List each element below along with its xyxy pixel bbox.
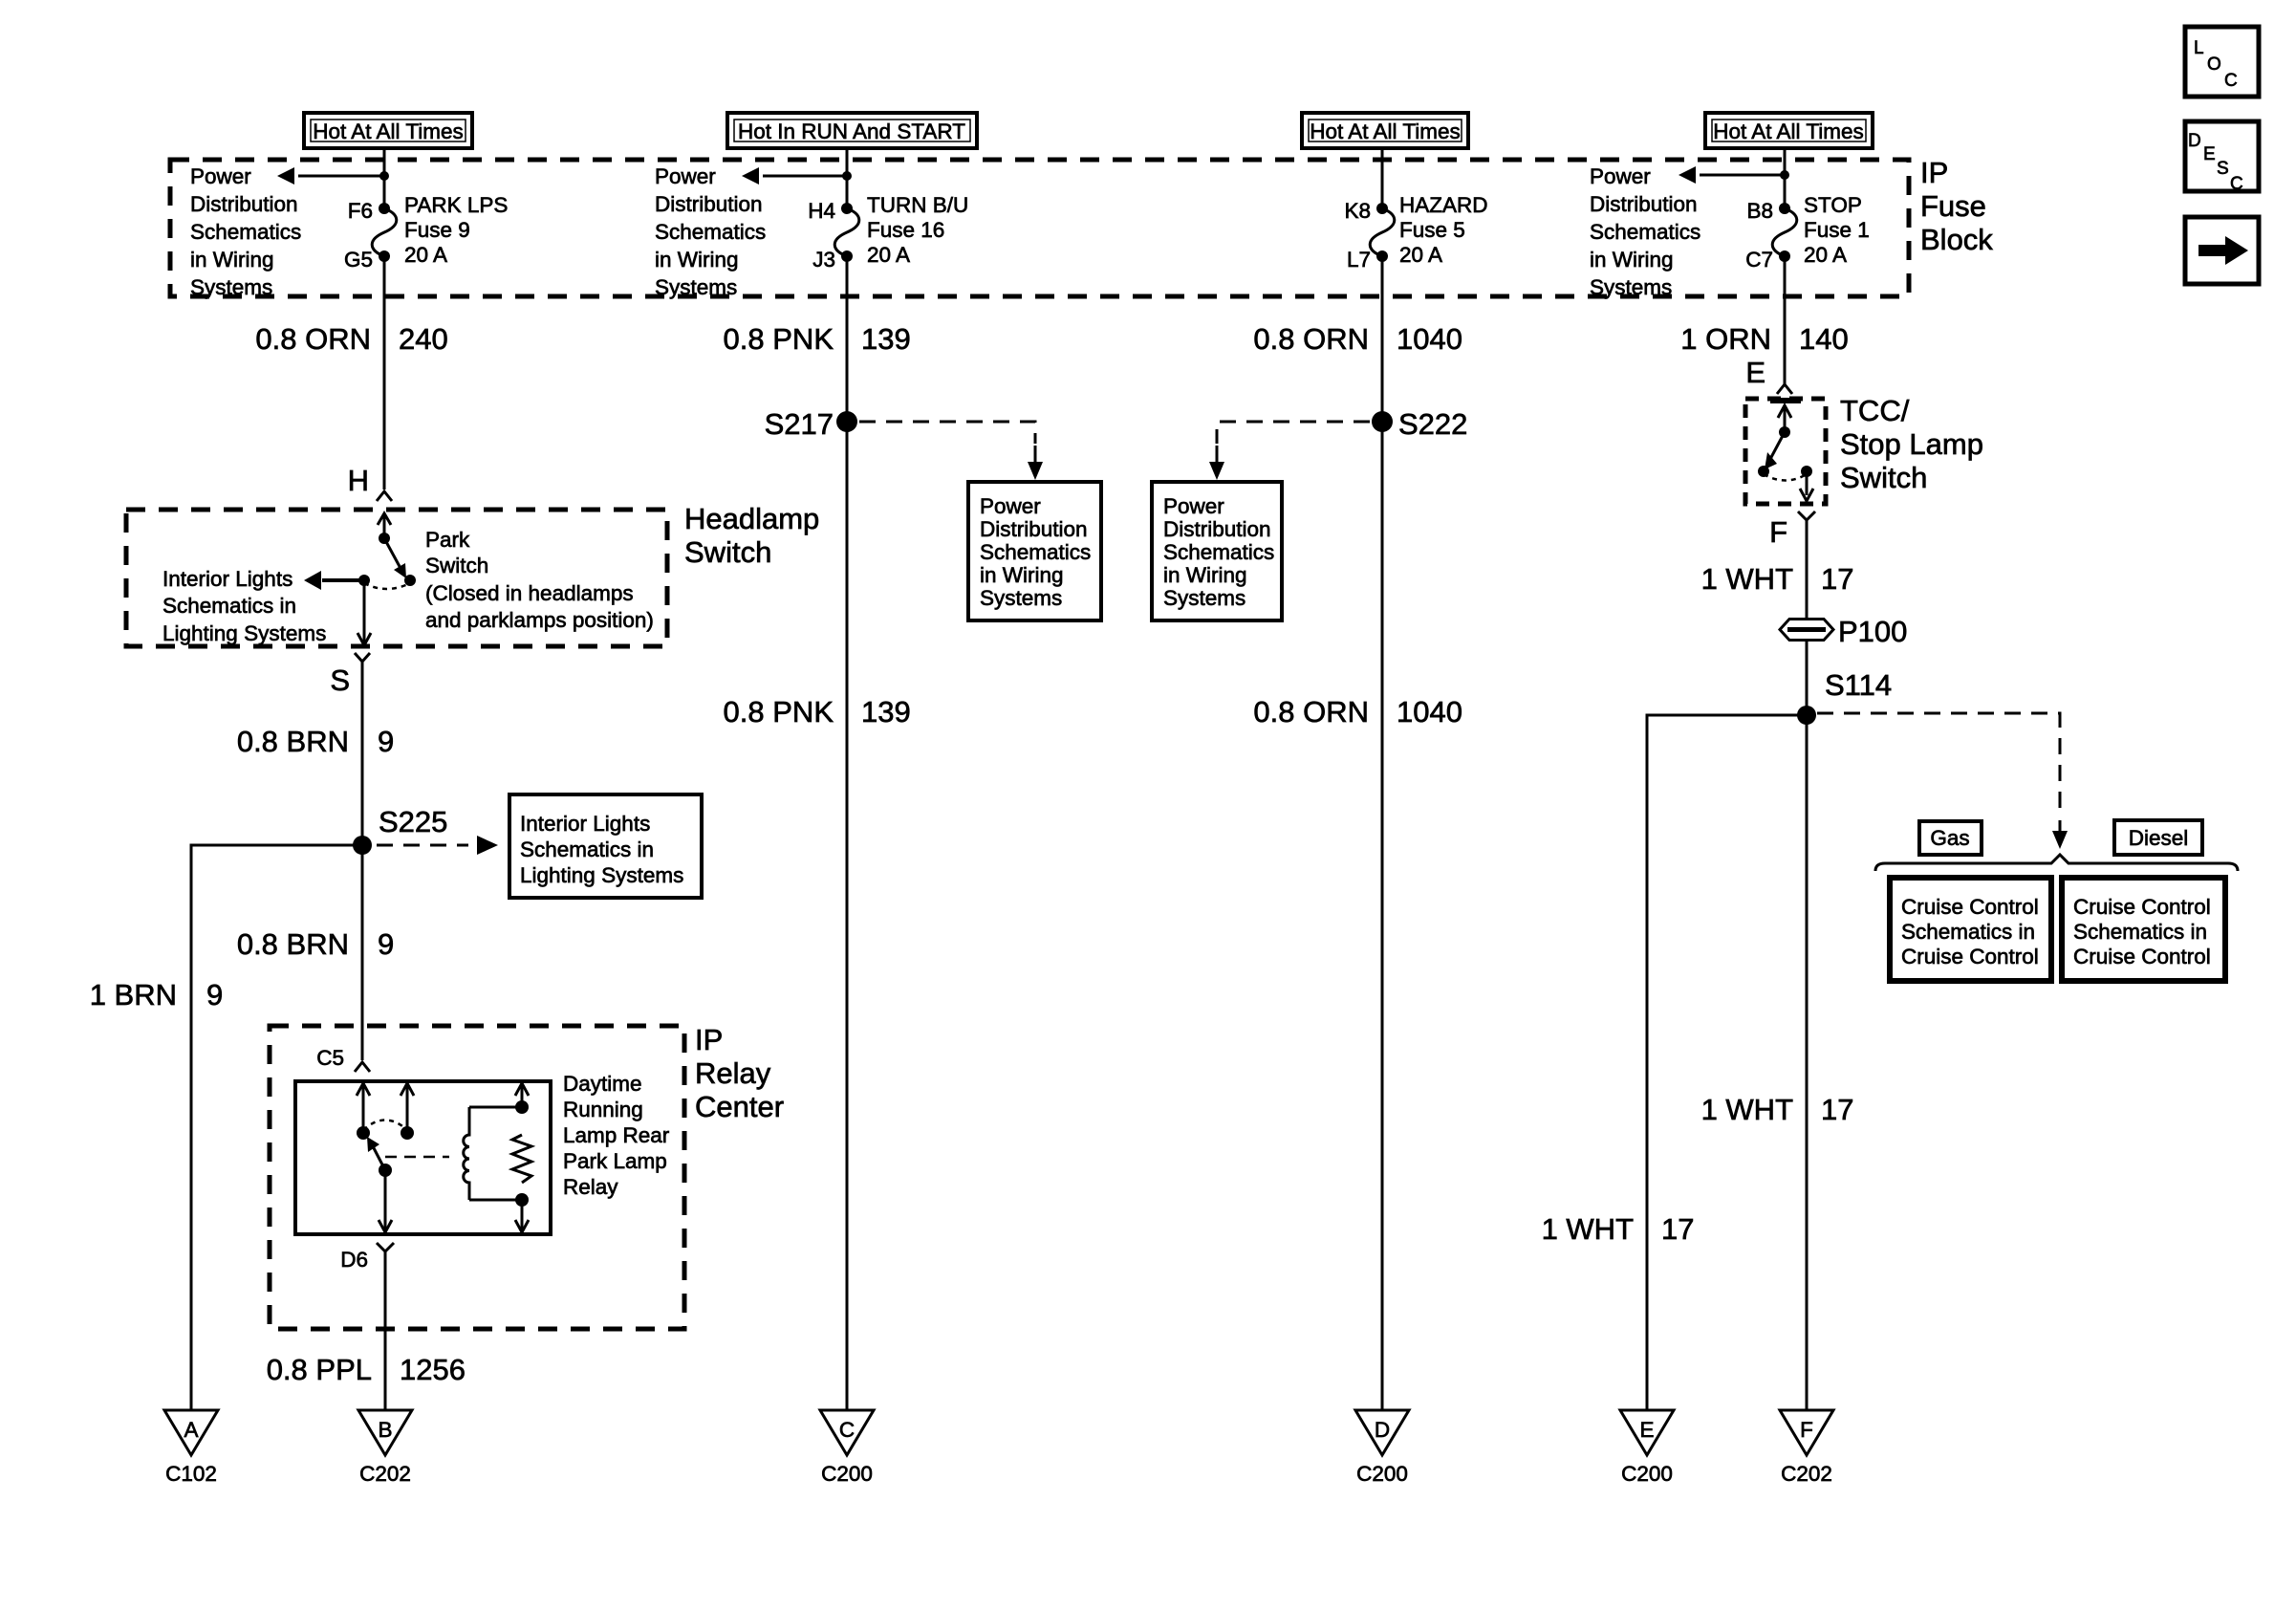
TCC switch input arrow [1778,405,1791,431]
forward arrow legend box [2185,217,2259,284]
relay right pin bottom arrow [515,1200,529,1232]
svg-text:Schematics: Schematics [190,220,301,244]
svg-text:0.8 PPL: 0.8 PPL [267,1353,372,1386]
wire: circuit 9 from S225 to relay pin C5 [361,845,364,1060]
svg-text:Stop Lamp: Stop Lamp [1840,427,1983,461]
svg-text:Lighting Systems: Lighting Systems [162,621,326,645]
svg-text:1 BRN: 1 BRN [90,978,177,1012]
svg-text:Switch: Switch [425,554,488,577]
svg-text:TCC/: TCC/ [1840,394,1910,427]
wire label 0.8 BRN 9 (lower) [237,927,394,961]
svg-text:240: 240 [399,322,448,356]
svg-text:Schematics in: Schematics in [2073,920,2207,944]
junction dot on STOP feed [1780,170,1789,180]
svg-text:1 WHT: 1 WHT [1542,1212,1635,1246]
svg-text:0.8 BRN: 0.8 BRN [237,725,349,758]
svg-text:C: C [839,1418,855,1442]
reference box: Cruise Control Schematics in Cruise Control (gas) [1890,878,2051,981]
svg-text:Fuse 16: Fuse 16 [867,218,944,242]
junction dot on PARK LPS feed [379,171,389,181]
svg-text:Daytime: Daytime [563,1072,642,1096]
connector chevron at pin H [377,491,392,501]
wire label 0.8 ORN 240 [255,322,447,356]
svg-text:H: H [348,464,369,497]
svg-text:(Closed in headlamps: (Closed in headlamps [425,581,634,605]
arrow to Power Distribution Schematics (group 1) [277,167,384,185]
svg-text:F: F [1800,1418,1813,1442]
svg-text:Schematics in: Schematics in [520,838,654,861]
grommet P100 [1780,620,1833,641]
svg-text:140: 140 [1799,322,1849,356]
svg-text:Systems: Systems [980,586,1062,610]
svg-text:E: E [1639,1418,1654,1442]
svg-text:IP: IP [695,1023,723,1056]
connector triangle A [164,1410,218,1455]
svg-text:Distribution: Distribution [1163,517,1271,541]
wire label 1 WHT 17 (middle) [1701,1093,1854,1126]
TCC switch left contact dot [1758,466,1769,477]
svg-text:Cruise Control: Cruise Control [2073,895,2211,919]
text: Power Distribution Schematics in Wiring Systems (group 1) [190,164,301,299]
relay right pin top arrow [515,1083,529,1107]
text: Interior Lights Schematics in Lighting Systems (inside switch) [162,567,326,645]
svg-text:D6: D6 [340,1248,368,1272]
label box: Hot At All Times (PARK LPS feed) [304,113,472,148]
svg-text:S114: S114 [1825,668,1892,702]
connector triangle F [1780,1410,1833,1455]
wire: circuit 1040 from fuse L7 to connector D [1381,256,1384,1410]
wire: circuit 9 from pin S to S225 [361,662,364,845]
svg-text:0.8 ORN: 0.8 ORN [255,322,371,356]
svg-text:Diesel: Diesel [2129,826,2189,850]
svg-text:17: 17 [1821,562,1853,596]
svg-text:B: B [378,1418,392,1442]
svg-text:Power: Power [655,164,716,188]
svg-text:17: 17 [1661,1212,1694,1246]
wire label 0.8 BRN 9 (upper) [237,725,394,758]
label: PARK LPS Fuse 9 20 A [404,193,508,267]
fuse HAZARD Fuse 5 (terminals K8/L7) [1370,203,1395,262]
svg-text:Cruise Control: Cruise Control [1901,895,2039,919]
Headlamp Switch dashed outline [126,510,667,646]
relay lever pivot dot [379,1164,392,1177]
Headlamp Switch label [684,502,819,569]
park switch moving contact dot [404,575,416,586]
relay coil top node dot [515,1100,529,1114]
text: Park Switch note [425,528,654,632]
svg-text:Systems: Systems [1590,275,1672,299]
svg-text:Power: Power [1590,164,1651,188]
wire: feed into fuse PARK LPS [383,148,386,207]
svg-text:Power: Power [190,164,251,188]
connector chevron at pin F [1798,511,1815,520]
svg-text:F6: F6 [348,199,373,223]
svg-text:PARK LPS: PARK LPS [404,193,508,217]
svg-text:Schematics: Schematics [980,540,1091,564]
svg-text:Cruise Control: Cruise Control [1901,945,2039,968]
dashed arrow from S225 to Interior Lights reference [377,836,498,855]
arrow to Power Distribution Schematics (group 4) [1679,166,1785,184]
fuse TURN B/U Fuse 16 (terminals H4/J3) [834,203,859,262]
svg-text:1040: 1040 [1397,695,1462,729]
svg-text:B8: B8 [1746,199,1773,223]
relay coil [464,1107,522,1200]
svg-text:P100: P100 [1838,615,1907,648]
svg-text:in Wiring: in Wiring [1163,563,1247,587]
wire label 1 BRN 9 [90,978,224,1012]
connector chevron at pin C5 [355,1062,370,1072]
svg-text:S: S [330,664,350,697]
svg-text:Fuse 9: Fuse 9 [404,218,470,242]
svg-text:139: 139 [861,695,911,729]
connector chevron at pin S [355,653,370,662]
svg-text:S222: S222 [1398,407,1467,441]
relay switch common pin arrow [357,1083,370,1132]
svg-text:IP: IP [1920,156,1948,189]
relay lever [367,1137,385,1170]
relay dashed travel arc [363,1120,407,1131]
connector chevron at pin E [1777,384,1792,394]
svg-text:Gas: Gas [1930,826,1969,850]
svg-text:S217: S217 [765,407,834,441]
svg-text:Power: Power [980,494,1041,518]
svg-text:H4: H4 [808,199,835,223]
svg-text:C202: C202 [1781,1462,1832,1486]
svg-text:HAZARD: HAZARD [1399,193,1488,217]
svg-text:139: 139 [861,322,911,356]
connector triangle D [1355,1410,1409,1455]
svg-text:in Wiring: in Wiring [1590,248,1674,272]
splice S225 [353,836,372,855]
svg-text:O: O [2207,54,2221,75]
text: Daytime Running Lamp Rear Park Lamp Relay [563,1072,670,1199]
svg-text:D: D [1375,1418,1390,1442]
label box: Hot In RUN And START [727,113,977,148]
IP Relay Center dashed outline [270,1026,684,1329]
svg-text:C200: C200 [821,1462,873,1486]
svg-text:Fuse: Fuse [1920,189,1986,223]
dashed reference branch from S114 to cruise control [1817,713,2068,849]
label box: Diesel [2114,820,2202,855]
svg-text:Interior Lights: Interior Lights [162,567,292,591]
fuse STOP Fuse 1 (terminals B8/C7) [1772,203,1797,262]
label box: Hot At All Times (STOP feed) [1705,113,1873,148]
svg-text:A: A [184,1418,198,1442]
svg-text:Systems: Systems [655,275,737,299]
svg-text:Distribution: Distribution [190,192,298,216]
svg-text:E: E [2203,144,2216,164]
TCC switch right contact dot [1801,466,1812,477]
svg-text:and parklamps position): and parklamps position) [425,608,654,632]
svg-text:C: C [2230,174,2243,194]
wire label 0.8 ORN 1040 (upper) [1253,322,1462,356]
svg-text:9: 9 [206,978,223,1012]
fuse PARK LPS Fuse 9 (terminals F6/G5) [372,203,397,262]
svg-text:Schematics: Schematics [655,220,766,244]
connector triangle E [1620,1410,1674,1455]
TCC switch contact bar [1770,398,1801,403]
brace spanning gas and diesel references [1875,855,2238,871]
relay resistor [512,1135,531,1183]
wire: circuit 9 branch from S225 to connector A [191,845,362,1410]
svg-text:1 WHT: 1 WHT [1701,562,1794,596]
park switch dashed travel arc [364,583,410,589]
svg-text:Headlamp: Headlamp [684,502,819,535]
svg-text:Switch: Switch [684,535,771,569]
label box: Gas [1919,821,1982,855]
svg-text:1040: 1040 [1397,322,1462,356]
relay dashed actuation link [385,1156,449,1159]
svg-text:Schematics: Schematics [1163,540,1274,564]
svg-text:Lighting Systems: Lighting Systems [520,863,683,887]
svg-text:STOP: STOP [1804,193,1862,217]
svg-text:Distribution: Distribution [980,517,1088,541]
reference box: Cruise Control Schematics in Cruise Control (diesel) [2062,878,2225,981]
svg-text:0.8 PNK: 0.8 PNK [724,695,834,729]
relay switch contact dot 1 [357,1126,370,1140]
svg-text:Systems: Systems [190,275,272,299]
junction dot on TURN B/U feed [842,171,852,181]
wire: feed into fuse HAZARD [1381,148,1384,207]
text: Power Distribution Schematics in Wiring Systems (group 4) [1590,164,1700,299]
reference box: Power Distribution Schematics in Wiring Systems (from S222) [1152,482,1282,620]
text: Power Distribution Schematics in Wiring Systems (group 2) [655,164,766,299]
relay switch contact dot 2 [401,1126,414,1140]
park switch input arrow [378,513,391,537]
svg-text:J3: J3 [812,248,835,272]
svg-text:Block: Block [1920,223,1993,256]
svg-text:in Wiring: in Wiring [655,248,739,272]
svg-text:K8: K8 [1344,199,1371,223]
svg-text:TURN B/U: TURN B/U [867,193,968,217]
wire: circuit 140 from fuse C7 to pin E [1784,256,1787,384]
wire: circuit 17 from pin F to P100 [1806,520,1809,619]
label: HAZARD Fuse 5 20 A [1399,193,1488,267]
arrow to Power Distribution Schematics (group 2) [742,167,847,185]
svg-text:Hot At All Times: Hot At All Times [1713,120,1864,143]
splice S217 [836,411,857,432]
svg-text:20 A: 20 A [404,243,447,267]
splice S222 [1372,411,1393,432]
svg-text:Hot In RUN And START: Hot In RUN And START [738,120,965,143]
DESC legend box [2185,121,2259,194]
reference box: Power Distribution Schematics in Wiring Systems (from S217) [968,482,1101,620]
wire: feed into fuse STOP [1784,148,1787,207]
svg-text:9: 9 [378,725,394,758]
svg-text:Center: Center [695,1090,784,1123]
svg-text:C200: C200 [1621,1462,1673,1486]
svg-text:Cruise Control: Cruise Control [2073,945,2211,968]
svg-text:Fuse 5: Fuse 5 [1399,218,1465,242]
IP Fuse Block label [1920,156,1993,256]
svg-text:Schematics: Schematics [1590,220,1700,244]
svg-text:in Wiring: in Wiring [190,248,274,272]
TCC switch output arrow to pin F [1800,471,1813,501]
park switch output arrow to pin S [357,580,371,645]
TCC switch fixed contact dot [1779,426,1790,438]
wire: circuit 1256 from D6 to connector B [384,1251,387,1410]
park switch fixed contact dot [379,533,390,544]
wire: circuit 240 from fuse G5 to Headlamp Switch pin H [383,256,386,490]
relay coil bottom node dot [515,1193,529,1207]
LOC legend box [2185,27,2259,97]
IP Relay Center label [695,1023,784,1123]
svg-text:Schematics in: Schematics in [1901,920,2035,944]
dashed reference branch from S222 [1209,422,1370,480]
svg-text:in Wiring: in Wiring [980,563,1064,587]
wire: circuit 139 from fuse J3 to connector C [846,256,849,1410]
svg-text:0.8 BRN: 0.8 BRN [237,927,349,961]
svg-text:0.8 ORN: 0.8 ORN [1253,695,1369,729]
svg-text:Power: Power [1163,494,1224,518]
svg-text:L: L [2194,38,2204,58]
wire: feed into fuse TURN B/U [846,148,849,207]
svg-text:S: S [2217,159,2229,179]
svg-text:20 A: 20 A [867,243,910,267]
relay: Daytime Running Lamp Rear Park Lamp Relay box [295,1081,551,1234]
wire label 0.8 PNK 139 (lower) [724,695,911,729]
svg-text:Park: Park [425,528,470,552]
svg-text:C5: C5 [316,1046,344,1070]
wire: circuit 17 branch from S114 to connector E [1647,715,1807,1410]
TCC/Stop Lamp Switch dashed outline [1745,399,1826,504]
svg-text:Relay: Relay [695,1056,771,1090]
svg-text:Fuse 1: Fuse 1 [1804,218,1870,242]
svg-text:Lamp Rear: Lamp Rear [563,1123,670,1147]
dashed reference branch from S217 [859,422,1043,480]
svg-text:Interior Lights: Interior Lights [520,812,650,836]
svg-text:G5: G5 [344,248,373,272]
wire label 0.8 PNK 139 (upper) [724,322,911,356]
park switch output junction dot [358,575,370,586]
relay second pin arrow [401,1083,414,1132]
svg-text:1 WHT: 1 WHT [1701,1093,1794,1126]
svg-text:S225: S225 [379,805,447,838]
wire label 1 WHT 17 (top) [1701,562,1854,596]
IP Fuse Block dashed outline [170,160,1909,296]
wire label 0.8 PPL 1256 [267,1353,466,1386]
svg-text:C102: C102 [165,1462,217,1486]
svg-text:E: E [1745,356,1765,389]
svg-text:Park Lamp: Park Lamp [563,1149,667,1173]
svg-text:Distribution: Distribution [1590,192,1698,216]
label: TURN B/U Fuse 16 20 A [867,193,968,267]
connector chevron at pin D6 [377,1243,394,1251]
wire label 0.8 ORN 1040 (lower) [1253,695,1462,729]
connector triangle C [820,1410,874,1455]
TCC switch lever [1765,432,1785,469]
wire label 1 ORN 140 [1680,322,1848,356]
svg-text:9: 9 [378,927,394,961]
svg-text:20 A: 20 A [1399,243,1442,267]
wire: circuit 17 from P100 to connector F [1806,640,1809,1410]
svg-text:Schematics in: Schematics in [162,594,296,618]
svg-text:C: C [2224,71,2238,91]
TCC switch label [1840,394,1983,494]
svg-text:Hot At All Times: Hot At All Times [313,120,464,143]
relay output arrow to pin D6 [379,1170,392,1232]
TCC switch dashed travel arc [1764,474,1807,481]
svg-text:17: 17 [1821,1093,1853,1126]
splice S114 [1797,706,1816,725]
svg-text:C202: C202 [359,1462,411,1486]
park switch lever [384,538,406,578]
svg-text:Distribution: Distribution [655,192,763,216]
svg-text:Systems: Systems [1163,586,1245,610]
svg-text:D: D [2188,131,2201,151]
reference box: Interior Lights Schematics in Lighting Systems [509,794,702,898]
label box: Hot At All Times (HAZARD feed) [1302,113,1468,148]
svg-text:Switch: Switch [1840,461,1927,494]
label: STOP Fuse 1 20 A [1804,193,1870,267]
svg-text:Relay: Relay [563,1175,618,1199]
arrow to Interior Lights Schematics [304,571,364,590]
wire label 1 WHT 17 (lower) [1542,1212,1695,1246]
svg-text:F: F [1769,515,1787,549]
svg-text:0.8 PNK: 0.8 PNK [724,322,834,356]
svg-text:Running: Running [563,1098,643,1121]
svg-text:20 A: 20 A [1804,243,1847,267]
svg-text:Hot At All Times: Hot At All Times [1310,120,1461,143]
connector triangle B [358,1410,412,1455]
svg-text:L7: L7 [1347,248,1371,272]
svg-text:1256: 1256 [400,1353,466,1386]
svg-text:C200: C200 [1356,1462,1408,1486]
svg-text:C7: C7 [1745,248,1773,272]
svg-text:1 ORN: 1 ORN [1680,322,1771,356]
svg-text:0.8 ORN: 0.8 ORN [1253,322,1369,356]
